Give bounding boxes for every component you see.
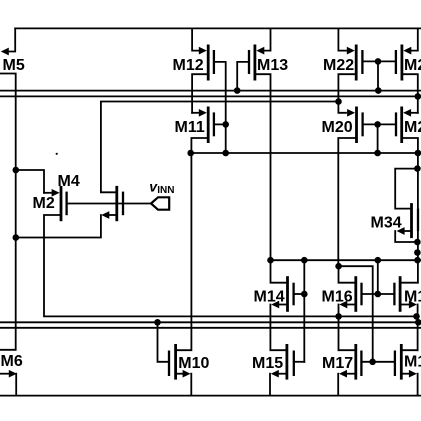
wire bias rail 2 [0,95,421,97]
svg-text:M13: M13 [257,57,288,74]
transistor M2 M4 composite input [33,173,80,221]
node M21 drain on mid net [415,150,421,157]
wire M14 M15 gate vertical [303,260,305,362]
svg-text:M10: M10 [178,355,209,372]
node M11 gate tie on mid net [222,150,229,157]
svg-text:M22: M22 [323,57,354,74]
wire mirror gate net 2 [339,266,373,362]
svg-text:M14: M14 [254,289,285,306]
wire bias rail 4 [0,327,421,329]
node net1 gate tap junction [301,257,308,264]
svg-text:M17: M17 [322,355,353,372]
svg-text:M20: M20 [322,119,353,136]
node speck artifact [56,153,58,155]
wire M17 M19 gate lead [363,361,394,363]
node right column mid junction [414,249,421,256]
transistor M21 [396,107,421,283]
node net1 M14 drain junction [267,257,274,264]
svg-text:M6: M6 [1,353,23,370]
wire tail to input pair [16,170,44,193]
transistor M11 [175,107,226,154]
svg-text:M12: M12 [173,57,204,74]
node M34 source junction [414,239,421,246]
svg-text:M16: M16 [322,289,353,306]
transistor M23 [396,28,421,112]
node M17 M19 gate junction [369,359,376,366]
transistor M10 [158,153,210,396]
svg-text:M4: M4 [58,173,80,190]
node gate tie on mid net [374,150,381,157]
svg-text:M34: M34 [371,215,402,232]
transistor M13 [237,28,288,260]
wire cascode mid net [191,152,421,154]
transistor M22 [323,28,362,101]
node M20 M21 gate junction [374,121,381,128]
wire M22 M23 gate lead [364,60,396,62]
wire folded node A line [44,215,417,316]
transistor M17 [322,344,361,396]
transistor M16 [322,266,362,350]
node rail3 right junction [415,319,421,326]
wire VSS bottom rail [0,395,421,397]
node nodeA right junction [413,313,420,320]
node net2 M16 junction [335,263,342,270]
transistor M18 [394,276,421,350]
node M14 gate junction [301,291,308,298]
wire bias rail 1 [0,90,421,92]
node gate tie on rail1 [375,87,382,94]
node M11 M12 gate junction [222,121,229,128]
port vINN pad [151,197,169,209]
transistor M34 [371,169,419,242]
node M16 M18 gate junction [375,291,382,298]
node tail dot 2 [13,234,20,241]
svg-text:M1: M1 [404,354,421,371]
transistor M19 [395,344,421,396]
transistor M15 [252,344,304,396]
svg-text:INN: INN [157,185,174,196]
node M13 gate on rail1 [234,87,241,94]
wire M20 M21 gate lead [364,123,395,125]
transistor M20 [322,102,363,267]
svg-text:M5: M5 [3,57,25,74]
svg-text:M11: M11 [175,119,205,136]
wire VDD top rail [15,27,421,29]
svg-text:M15: M15 [252,355,283,372]
node right column net1 junction [414,257,421,264]
wire input pair gates to vINN [68,203,151,205]
svg-text:M1: M1 [404,289,421,306]
wire net1 tie to M16 gate [377,260,379,294]
wire bias rail 3 [0,321,421,323]
wire M16 M18 gate lead [363,293,394,295]
node M34 drain junction [414,165,421,172]
wire folded node B line [101,102,339,193]
svg-text:M2: M2 [33,195,55,212]
transistor vINN input device [16,186,123,238]
transistor M6 [0,353,23,396]
node M22 drain M20 source junction [335,98,342,105]
node tail dot 1 [13,167,20,174]
node net1 tie junction [375,257,382,264]
transistor M14 [254,260,305,350]
wire M20 gate tie down [377,124,379,153]
svg-text:M2: M2 [404,57,421,74]
node M22 M23 gate junction [375,58,382,65]
wire first stage out net 1 [271,259,421,261]
node nodeA M16 source junction [335,313,342,320]
transistor M5 [0,28,25,349]
transistor M12 [173,28,226,153]
node M11 drain junction [187,150,194,157]
node M10 gate on rail3 [154,319,161,326]
node M23 drain on rail2 [415,93,421,100]
svg-text:M2: M2 [404,119,421,136]
wire M22 gate tie to rail1 [377,61,379,90]
